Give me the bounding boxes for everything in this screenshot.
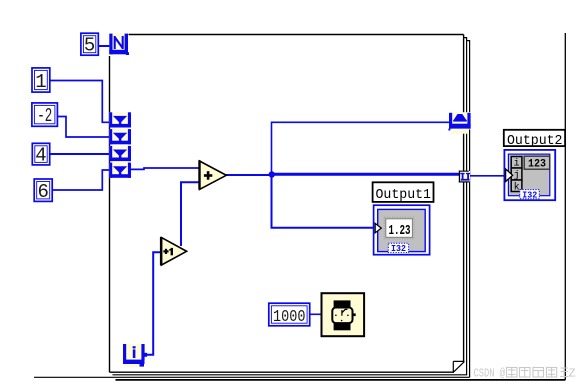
svg-text:1000: 1000 (273, 308, 306, 327)
svg-text:j: j (514, 170, 520, 182)
svg-text:5: 5 (84, 35, 95, 57)
svg-text:Output1: Output1 (376, 187, 432, 203)
svg-text:-2: -2 (37, 105, 52, 127)
svg-text:Output2: Output2 (507, 133, 563, 149)
svg-text:6: 6 (37, 181, 48, 203)
svg-text:CSDN @: CSDN @ (474, 367, 506, 381)
svg-text:123: 123 (528, 159, 546, 171)
svg-text:Z: Z (569, 367, 576, 381)
svg-text:i: i (514, 158, 520, 170)
svg-text:I32: I32 (522, 189, 537, 200)
svg-text:1: 1 (35, 71, 46, 93)
svg-text:1.23: 1.23 (389, 224, 411, 239)
svg-text:k: k (514, 182, 520, 194)
svg-text:4: 4 (35, 144, 46, 166)
svg-text:I32: I32 (391, 243, 406, 254)
